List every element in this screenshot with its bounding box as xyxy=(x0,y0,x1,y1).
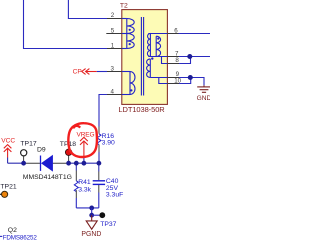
pin 6 xyxy=(167,33,178,35)
test point TP37 xyxy=(99,212,105,218)
pin 2 xyxy=(107,18,122,20)
svg-text:LDT1038-50R: LDT1038-50R xyxy=(118,105,165,114)
svg-text:R41: R41 xyxy=(78,179,91,186)
svg-text:3.3uF: 3.3uF xyxy=(106,191,123,198)
capacitor C40 xyxy=(98,163,100,171)
pin 7 xyxy=(167,56,179,58)
ground PGND xyxy=(91,215,93,221)
resistor R16 xyxy=(98,127,100,134)
svg-text:TP17: TP17 xyxy=(20,141,36,148)
transformer core xyxy=(140,17,142,96)
svg-text:T2: T2 xyxy=(120,3,128,10)
wire pin 9 to GND xyxy=(179,78,204,86)
junction xyxy=(89,206,94,211)
junction xyxy=(74,161,79,166)
junction xyxy=(66,161,71,166)
pin 1 xyxy=(107,48,122,50)
svg-text:VCC: VCC xyxy=(1,138,15,145)
bottom rail wire xyxy=(76,207,99,209)
pin 3 xyxy=(107,71,122,73)
wire CP to pin 3 xyxy=(97,71,107,73)
svg-text:8: 8 xyxy=(175,57,179,64)
svg-text:TP37: TP37 xyxy=(100,221,116,228)
svg-text:MMSD4148T1G: MMSD4148T1G xyxy=(23,174,72,181)
svg-text:3.3k: 3.3k xyxy=(78,187,91,194)
junction xyxy=(82,161,87,166)
pin 9 xyxy=(167,77,179,79)
wire pin 6 xyxy=(179,33,211,35)
svg-text:1: 1 xyxy=(111,42,115,49)
right top winding (pins 6-7-8) xyxy=(148,33,167,35)
pin 4 xyxy=(107,94,122,96)
junction pins 9/10 xyxy=(188,75,193,80)
svg-text:CP: CP xyxy=(73,68,83,75)
lower-left winding xyxy=(129,72,131,95)
resistor R41 xyxy=(75,163,77,170)
wire from top edge to pin 2 xyxy=(68,0,107,19)
svg-text:TP21: TP21 xyxy=(0,183,16,190)
svg-text:PGND: PGND xyxy=(81,231,101,238)
svg-text:4: 4 xyxy=(111,88,115,95)
svg-text:3.90: 3.90 xyxy=(102,140,115,147)
svg-text:Q2: Q2 xyxy=(8,227,17,234)
Q2 symbol fragment xyxy=(0,235,2,237)
svg-text:VREG: VREG xyxy=(77,132,95,139)
svg-text:GND: GND xyxy=(197,95,210,102)
main wire VCC to D9 xyxy=(8,162,24,164)
pin 8 xyxy=(167,63,179,65)
ground GND xyxy=(197,85,211,92)
right bottom winding (pins 9-10) xyxy=(149,59,151,78)
wire to TP37 xyxy=(92,214,100,216)
node CP off-page connector xyxy=(82,69,97,75)
svg-text:2: 2 xyxy=(111,12,115,19)
wire pin 8 up to pin 7 xyxy=(179,57,191,64)
svg-text:FDMS86252: FDMS86252 xyxy=(3,235,38,240)
junction xyxy=(21,161,26,166)
annotation red circle around VREG xyxy=(68,123,97,157)
wire down to PGND xyxy=(91,208,93,215)
svg-text:5: 5 xyxy=(111,27,115,34)
transformer T2 body xyxy=(122,10,168,105)
left winding (pins 2-5-1) xyxy=(126,19,128,49)
wire pin 10 up to pin 9 xyxy=(179,78,191,84)
wire pin 7 xyxy=(179,56,210,58)
junction R16/C40 xyxy=(97,161,102,166)
svg-text:6: 6 xyxy=(174,27,178,34)
svg-text:3: 3 xyxy=(111,65,115,72)
svg-text:D9: D9 xyxy=(37,147,46,154)
lower-left winding stubs (pins 3-4) xyxy=(122,71,130,73)
pin 10 xyxy=(167,83,179,85)
main wire D9 to R16/C40 node xyxy=(53,162,69,164)
wire from top edge to pin 1 xyxy=(24,0,108,49)
junction pins 7/8 xyxy=(187,54,192,59)
left winding stubs xyxy=(122,18,127,20)
wire pin 4 down to R16 xyxy=(99,95,107,127)
pin 5 xyxy=(106,33,122,35)
